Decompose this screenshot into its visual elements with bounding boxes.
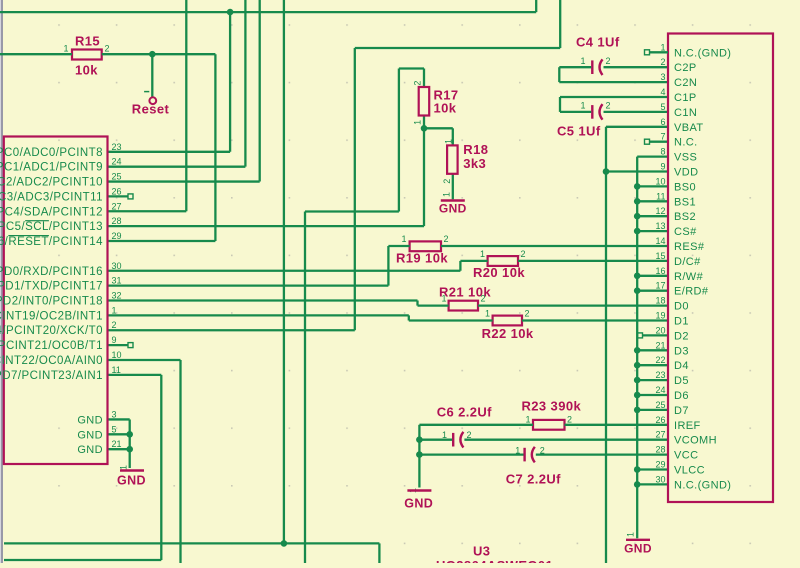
wire PD6 pin10 xyxy=(108,359,181,361)
svg-text:32: 32 xyxy=(112,291,122,301)
wire E/RD# to GND bus xyxy=(637,290,668,292)
wire GND pins 3 5 21 xyxy=(108,418,130,420)
node RESET junction xyxy=(149,51,156,58)
svg-text:24: 24 xyxy=(112,157,122,167)
capacitor C6 xyxy=(452,433,454,447)
svg-text:3: 3 xyxy=(660,72,665,82)
svg-text:C7 2.2Uf: C7 2.2Uf xyxy=(506,472,561,487)
wire PC0 pin23 xyxy=(108,151,231,153)
wire D4 to GND bus xyxy=(637,364,668,366)
wire R18 branch xyxy=(424,127,453,129)
wire xyxy=(0,53,72,55)
svg-text:1: 1 xyxy=(112,305,117,315)
svg-text:VCC: VCC xyxy=(674,450,698,462)
wire VBAT net xyxy=(606,126,668,128)
svg-text:10k: 10k xyxy=(75,63,98,78)
svg-text:GND: GND xyxy=(624,542,652,556)
svg-text:PD7/PCINT23/AIN1: PD7/PCINT23/AIN1 xyxy=(0,370,103,382)
wire PC4 pin27 xyxy=(108,210,187,212)
node junction pin23 xyxy=(634,377,641,384)
wire xyxy=(388,245,409,247)
svg-text:C1P: C1P xyxy=(674,92,697,104)
svg-text:PC1/ADC1/PCINT9: PC1/ADC1/PCINT9 xyxy=(0,162,103,174)
wire PD4 net up and over xyxy=(354,48,356,330)
svg-text:D4: D4 xyxy=(674,360,689,372)
node junction GND pin5 xyxy=(126,431,133,438)
svg-text:PD6/PCINT22/OC0A/AIN0: PD6/PCINT22/OC0A/AIN0 xyxy=(0,355,103,367)
svg-text:18: 18 xyxy=(655,296,665,306)
node junction pin24 xyxy=(634,392,641,399)
svg-text:1: 1 xyxy=(581,101,586,111)
wire R/W# to GND bus xyxy=(637,275,668,277)
svg-text:2: 2 xyxy=(481,294,486,304)
svg-text:14: 14 xyxy=(655,236,665,246)
wire VCOMH net xyxy=(419,439,452,441)
svg-text:17: 17 xyxy=(655,281,665,291)
node junction pin30 xyxy=(634,481,641,488)
svg-text:5: 5 xyxy=(660,102,665,112)
svg-text:D0: D0 xyxy=(674,301,689,313)
wire xyxy=(535,0,537,12)
wire VCC net xyxy=(419,453,523,455)
svg-text:2: 2 xyxy=(413,81,423,86)
svg-text:N.C.: N.C. xyxy=(674,137,698,149)
svg-text:10: 10 xyxy=(112,350,122,360)
wire xyxy=(409,319,493,321)
svg-text:2: 2 xyxy=(521,249,526,259)
svg-text:R20 10k: R20 10k xyxy=(473,265,525,280)
svg-text:R15: R15 xyxy=(75,34,100,49)
svg-text:20: 20 xyxy=(655,325,665,335)
svg-text:D6: D6 xyxy=(674,390,689,402)
wire VSS to GND bus xyxy=(637,155,668,157)
node junction GND pin21 xyxy=(126,446,133,453)
svg-text:PD0/RXD/PCINT16: PD0/RXD/PCINT16 xyxy=(0,266,103,278)
node junction pin11 xyxy=(634,198,641,205)
svg-text:PC4/SDA/PCINT12: PC4/SDA/PCINT12 xyxy=(0,206,103,218)
wire C2N net xyxy=(559,81,668,83)
svg-text:26: 26 xyxy=(655,415,665,425)
svg-text:C4 1Uf: C4 1Uf xyxy=(576,35,620,50)
pin PD5 pin9 stub unconnected xyxy=(108,344,129,346)
node junction pin12 xyxy=(634,213,641,220)
svg-text:GND: GND xyxy=(439,202,467,216)
svg-text:5: 5 xyxy=(112,424,117,434)
node junction C6 xyxy=(416,436,423,443)
wire PD1 pin31 to R19 xyxy=(108,284,389,286)
svg-text:15: 15 xyxy=(655,251,665,261)
svg-text:C2N: C2N xyxy=(674,77,697,89)
svg-text:22: 22 xyxy=(655,355,665,365)
wire PD7 pin11 xyxy=(108,374,162,376)
wire VLCC to GND bus xyxy=(637,468,668,470)
svg-text:30: 30 xyxy=(655,474,665,484)
svg-text:11: 11 xyxy=(112,365,121,375)
wire PD2 pin32 to R21 xyxy=(108,299,418,301)
svg-text:12: 12 xyxy=(655,206,665,216)
svg-text:11: 11 xyxy=(656,191,665,201)
wire PC1 pin24 xyxy=(108,166,246,168)
svg-text:1: 1 xyxy=(443,139,453,144)
svg-text:1: 1 xyxy=(526,415,531,425)
svg-text:21: 21 xyxy=(112,439,122,449)
svg-text:PC0/ADC0/PCINT8: PC0/ADC0/PCINT8 xyxy=(0,147,103,159)
wire xyxy=(460,260,487,262)
node junction pin16 xyxy=(634,273,641,280)
svg-text:10k: 10k xyxy=(434,101,457,116)
wire D/C# net xyxy=(518,260,668,262)
svg-text:1: 1 xyxy=(442,294,447,304)
node junction PC0 net xyxy=(227,9,234,16)
svg-text:7: 7 xyxy=(660,132,665,142)
node junction R17/R18 xyxy=(421,125,428,132)
svg-text:1: 1 xyxy=(480,249,485,259)
svg-text:3k3: 3k3 xyxy=(463,156,486,171)
svg-text:D3: D3 xyxy=(674,345,689,357)
svg-text:2: 2 xyxy=(567,415,572,425)
svg-text:VLCC: VLCC xyxy=(674,465,705,477)
wire D6 to GND bus xyxy=(637,394,668,396)
svg-text:29: 29 xyxy=(655,460,665,470)
resistor R15 xyxy=(72,50,102,60)
node junction pin29 xyxy=(634,466,641,473)
capacitor C7 xyxy=(523,448,525,462)
svg-text:2: 2 xyxy=(105,43,110,53)
svg-text:R18: R18 xyxy=(463,142,488,157)
wire PC5 pin28 to R17 bottom xyxy=(108,225,425,227)
svg-text:1: 1 xyxy=(626,532,636,537)
svg-text:28: 28 xyxy=(655,445,665,455)
svg-text:16: 16 xyxy=(655,266,665,276)
svg-text:PD2/INT0/PCINT18: PD2/INT0/PCINT18 xyxy=(0,296,103,308)
resistor R17 xyxy=(419,87,430,116)
wire IREF net xyxy=(419,424,533,426)
svg-text:2: 2 xyxy=(442,179,452,184)
wire GND bus vertical xyxy=(636,157,638,539)
svg-text:2: 2 xyxy=(467,430,472,440)
svg-text:GND: GND xyxy=(77,429,103,441)
svg-text:8: 8 xyxy=(660,147,665,157)
wire D5 to GND bus xyxy=(637,379,668,381)
svg-text:27: 27 xyxy=(655,430,665,440)
svg-text:21: 21 xyxy=(655,340,665,350)
svg-text:9: 9 xyxy=(660,162,665,172)
node junction pin10 xyxy=(634,183,641,190)
svg-text:C1N: C1N xyxy=(674,107,697,119)
node junction pin13 xyxy=(634,228,641,235)
svg-text:2: 2 xyxy=(444,234,449,244)
svg-text:27: 27 xyxy=(112,201,122,211)
svg-text:R22 10k: R22 10k xyxy=(482,326,534,341)
wire BS2 to GND bus xyxy=(637,215,668,217)
window edge strip xyxy=(0,0,1,563)
svg-text:Reset: Reset xyxy=(132,102,170,117)
wire CS# to GND bus xyxy=(637,230,668,232)
svg-text:26: 26 xyxy=(112,186,122,196)
wire BS0 to GND bus xyxy=(637,185,668,187)
capacitor C5 xyxy=(591,105,593,119)
wire long bottom net xyxy=(4,542,379,544)
wire BS1 to GND bus xyxy=(637,200,668,202)
svg-text:IREF: IREF xyxy=(674,420,701,432)
svg-text:UG2864ASWEG01: UG2864ASWEG01 xyxy=(436,558,553,563)
svg-text:29: 29 xyxy=(112,231,122,241)
wire R17 bottom to pin28 row xyxy=(423,116,425,227)
svg-text:BS1: BS1 xyxy=(674,196,696,208)
svg-text:U3: U3 xyxy=(473,544,490,559)
svg-text:C5 1Uf: C5 1Uf xyxy=(557,124,601,139)
resistor R22 xyxy=(493,316,522,326)
resistor R19 xyxy=(410,241,441,251)
svg-text:E/RD#: E/RD# xyxy=(674,286,709,298)
pin Reset indicator xyxy=(144,91,149,93)
svg-text:VSS: VSS xyxy=(674,152,697,164)
svg-text:3: 3 xyxy=(112,409,117,419)
svg-text:23: 23 xyxy=(655,370,665,380)
svg-text:N.C.(GND): N.C.(GND) xyxy=(674,479,731,491)
wire xyxy=(102,53,216,55)
wire PD3 pin1 to R22 xyxy=(108,314,409,316)
svg-text:PC5/SCL/PCINT13: PC5/SCL/PCINT13 xyxy=(0,221,103,233)
wire xyxy=(418,304,449,306)
svg-text:1: 1 xyxy=(119,465,129,470)
svg-text:1: 1 xyxy=(64,43,69,53)
svg-text:9: 9 xyxy=(112,335,117,345)
svg-text:1: 1 xyxy=(442,192,452,197)
wire C2P net xyxy=(559,66,591,68)
svg-text:VBAT: VBAT xyxy=(674,122,704,134)
svg-text:GND: GND xyxy=(77,414,103,426)
svg-text:2: 2 xyxy=(660,57,665,67)
svg-text:D7: D7 xyxy=(674,405,689,417)
svg-text:30: 30 xyxy=(112,261,122,271)
wire N.C.(GND) to GND bus xyxy=(637,483,668,485)
wire C1P net xyxy=(560,96,668,98)
pin PC3 pin26 stub unconnected xyxy=(108,195,129,197)
svg-text:GND: GND xyxy=(404,497,433,511)
node junction pin21 xyxy=(634,347,641,354)
svg-text:PD3/PCINT19/OC2B/INT1: PD3/PCINT19/OC2B/INT1 xyxy=(0,310,103,322)
svg-text:2: 2 xyxy=(112,320,117,330)
svg-text:GND: GND xyxy=(117,474,146,488)
svg-text:1: 1 xyxy=(402,234,407,244)
resistor R21 xyxy=(449,301,478,311)
svg-text:19: 19 xyxy=(655,311,665,321)
svg-text:1: 1 xyxy=(660,42,665,52)
svg-text:24: 24 xyxy=(655,385,665,395)
resistor R20 xyxy=(488,256,518,266)
svg-text:2: 2 xyxy=(606,56,611,66)
svg-text:C2P: C2P xyxy=(674,62,697,74)
svg-text:R19 10k: R19 10k xyxy=(396,251,448,266)
svg-text:1: 1 xyxy=(581,56,586,66)
svg-text:25: 25 xyxy=(655,400,665,410)
capacitor C4 xyxy=(591,60,593,74)
wire net to PC0 top horizontal xyxy=(0,11,536,13)
svg-text:BS2: BS2 xyxy=(674,211,696,223)
svg-text:GND: GND xyxy=(77,444,103,456)
IC ATmega box xyxy=(4,137,108,465)
node junction VBAT/VDD xyxy=(603,168,610,175)
svg-text:1: 1 xyxy=(485,309,490,319)
node junction C7 xyxy=(416,451,423,458)
svg-text:PC2/ADC2/PCINT10: PC2/ADC2/PCINT10 xyxy=(0,177,103,189)
resistor R18 xyxy=(447,145,458,173)
wire RES# net xyxy=(441,245,668,247)
wire R17 top net via x305 xyxy=(304,212,306,564)
wire D7 to GND bus xyxy=(637,409,668,411)
svg-text:N.C.(GND): N.C.(GND) xyxy=(674,47,731,59)
resistor R23 xyxy=(533,420,565,430)
node junction bottom net xyxy=(281,540,288,547)
pin N.C.(GND) pin1 stub xyxy=(650,51,669,53)
wire R18 bottom stub xyxy=(452,174,454,200)
svg-text:1: 1 xyxy=(413,120,423,125)
svg-text:D2: D2 xyxy=(674,330,689,342)
svg-text:2: 2 xyxy=(525,309,530,319)
svg-text:28: 28 xyxy=(112,216,122,226)
wire VDD net xyxy=(606,170,668,172)
node junction pin22 xyxy=(634,362,641,369)
wire PC2 pin25 xyxy=(108,180,260,182)
connector Reset pin circle xyxy=(149,97,156,104)
svg-text:D/C#: D/C# xyxy=(674,256,701,268)
svg-text:VCOMH: VCOMH xyxy=(674,435,717,447)
svg-text:PD5/PCINT21/OC0B/T1: PD5/PCINT21/OC0B/T1 xyxy=(0,340,103,352)
svg-text:PC3/ADC3/PCINT11: PC3/ADC3/PCINT11 xyxy=(0,191,103,203)
svg-text:R23 390k: R23 390k xyxy=(522,399,582,414)
wire D3 to GND bus xyxy=(637,349,668,351)
svg-text:6: 6 xyxy=(660,117,665,127)
wire D1 net xyxy=(522,319,668,321)
wire C1N net xyxy=(604,111,669,113)
svg-text:10: 10 xyxy=(655,176,665,186)
svg-text:CS#: CS# xyxy=(674,226,697,238)
wire D0 net xyxy=(478,304,668,306)
wire PD0 pin30 to R20 xyxy=(108,270,461,272)
pin N.C. pin7 stub xyxy=(650,141,669,143)
wire xyxy=(151,54,153,97)
svg-text:25: 25 xyxy=(112,172,122,182)
svg-text:31: 31 xyxy=(112,276,122,286)
svg-text:R/W#: R/W# xyxy=(674,271,704,283)
wire xyxy=(108,240,216,242)
svg-text:D1: D1 xyxy=(674,316,689,328)
svg-text:PD4/PCINT20/XCK/T0: PD4/PCINT20/XCK/T0 xyxy=(0,325,103,337)
node junction pin25 xyxy=(634,407,641,414)
svg-text:D5: D5 xyxy=(674,375,689,387)
svg-text:13: 13 xyxy=(655,221,665,231)
svg-text:BS0: BS0 xyxy=(674,181,696,193)
svg-text:2: 2 xyxy=(606,101,611,111)
svg-text:1: 1 xyxy=(442,430,447,440)
svg-text:RES#: RES# xyxy=(674,241,705,253)
svg-text:C6 2.2Uf: C6 2.2Uf xyxy=(437,405,492,420)
svg-text:VDD: VDD xyxy=(674,167,698,179)
svg-text:PC6/RESET/PCINT14: PC6/RESET/PCINT14 xyxy=(0,236,103,248)
wire PD4 pin2 xyxy=(108,329,355,331)
connector OLED box U3 xyxy=(668,34,773,503)
svg-text:PD1/TXD/PCINT17: PD1/TXD/PCINT17 xyxy=(0,281,103,293)
pin D2 pin20 stub xyxy=(643,334,669,336)
wire PC6/RESET to R15 net xyxy=(214,54,216,241)
node junction pin17 xyxy=(634,287,641,294)
svg-text:23: 23 xyxy=(112,142,122,152)
svg-text:4: 4 xyxy=(660,87,665,97)
